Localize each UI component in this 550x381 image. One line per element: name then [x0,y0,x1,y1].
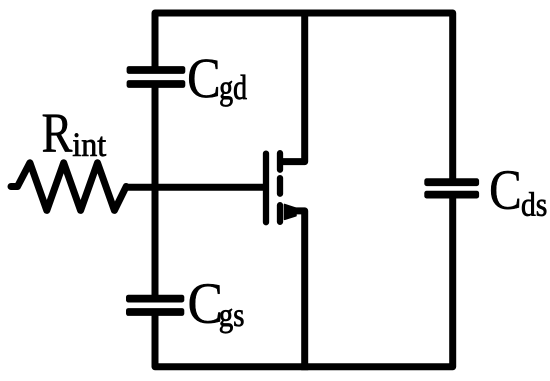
wire top rail with upper left and right rail segments [155,13,453,184]
transistor Q1 gate bar [263,154,269,223]
capacitor Cgd bottom plate [127,80,186,88]
wire gate lead [124,184,265,191]
label R_int subscript int [73,133,106,156]
wire drain connection to top rail [280,10,305,162]
transistor Q1 channel segment bottom [277,205,283,222]
label Cgd subscript gd [220,75,246,107]
wire left rail middle segment [152,86,159,297]
label R_int letter R [43,115,73,152]
capacitor Cgs bottom plate [126,308,184,316]
label Cgd letter C [189,59,218,97]
transistor Q1 channel segment middle [277,178,283,194]
transistor Q1 source arrow [285,204,297,219]
transistor Q1 channel segment top [277,153,283,170]
capacitor Cgd top plate [127,66,186,74]
wire source connection to bottom rail [288,211,305,370]
wire bottom rail with lower left and right rail segments [155,193,453,367]
capacitor Cds top plate [424,178,479,186]
label Cgs subscript gs [220,309,243,333]
capacitor Cds bottom plate [424,191,479,199]
label Cds subscript ds [522,192,546,216]
label Cds letter C [491,171,519,209]
capacitor Cgs top plate [126,295,184,303]
label Cgs letter C [190,284,220,323]
resistor R_int zigzag [11,163,126,211]
